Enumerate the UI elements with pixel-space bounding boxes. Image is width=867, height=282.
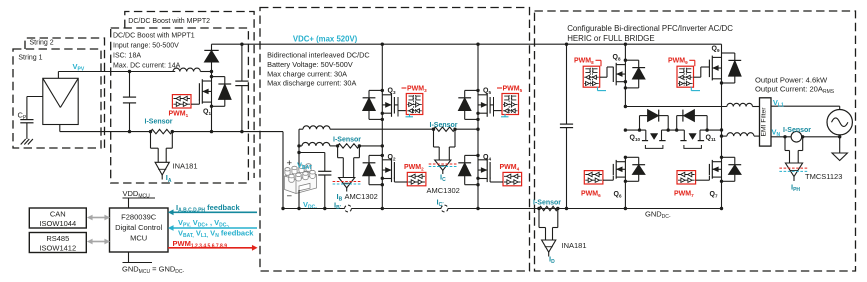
transistor Q4 xyxy=(477,129,479,155)
svg-text:PWM3: PWM3 xyxy=(407,85,427,93)
svg-text:I-Sensor: I-Sensor xyxy=(430,122,458,129)
svg-text:PWM2: PWM2 xyxy=(404,164,424,172)
output inductor L1 xyxy=(727,103,753,106)
output inductor N xyxy=(722,135,727,137)
svg-text:Digital Control: Digital Control xyxy=(115,223,162,232)
boost diode xyxy=(211,62,213,71)
battery + node wire xyxy=(298,129,300,170)
wire PV- to DC- xyxy=(282,132,284,209)
svg-text:−: − xyxy=(287,191,293,202)
transistor Q2 xyxy=(381,146,383,156)
svg-text:HERIC or FULL BRIDGE: HERIC or FULL BRIDGE xyxy=(567,34,654,43)
PFC/Inverter dashed box xyxy=(535,11,856,271)
gray arrows RS485-MCU xyxy=(92,241,106,243)
diode over Q11 xyxy=(676,116,678,131)
svg-text:EMI Filter: EMI Filter xyxy=(761,107,768,137)
svg-text:F280039C: F280039C xyxy=(121,213,157,222)
transistor Q7 xyxy=(711,160,713,179)
isolated amp AMC1302 (IC) xyxy=(433,129,435,147)
svg-text:Max charge current: 30A: Max charge current: 30A xyxy=(267,69,347,78)
transistor Q9 xyxy=(721,44,723,53)
op-amp INA181 (ID) xyxy=(538,209,540,228)
AC source xyxy=(827,110,852,135)
gate driver PWM4 xyxy=(503,172,522,185)
svg-text:PWM7: PWM7 xyxy=(674,191,694,199)
svg-text:I-Sensor: I-Sensor xyxy=(783,127,811,134)
svg-text:DC/DC Boost with MPPT2: DC/DC Boost with MPPT2 xyxy=(128,18,210,25)
svg-text:MCU: MCU xyxy=(130,234,147,243)
gate driver PWM3 xyxy=(394,104,398,106)
svg-text:ISOW1044: ISOW1044 xyxy=(39,219,76,228)
transistor Q5 xyxy=(477,44,479,90)
svg-text:VDC+ (max 520V): VDC+ (max 520V) xyxy=(293,35,358,44)
battery terminal block xyxy=(285,164,317,194)
svg-text:RS485: RS485 xyxy=(46,234,69,243)
DC- bottom rail xyxy=(283,208,722,210)
svg-text:CAN: CAN xyxy=(50,209,66,218)
HERIC output line (top) xyxy=(625,106,727,108)
svg-text:ISOW1412: ISOW1412 xyxy=(39,244,76,253)
String 1 dashed box xyxy=(13,49,101,148)
svg-text:PWM6: PWM6 xyxy=(581,191,601,199)
svg-text:GNDMCU = GNDDC-: GNDMCU = GNDDC- xyxy=(122,264,185,275)
EMI filter xyxy=(760,98,772,146)
svg-text:TMCS1123: TMCS1123 xyxy=(805,172,842,181)
svg-text:Max. DC current: 14A: Max. DC current: 14A xyxy=(113,62,181,69)
battery capacitor xyxy=(299,152,325,154)
svg-text:I-Sensor: I-Sensor xyxy=(533,199,561,206)
transistor Q8 xyxy=(624,44,626,60)
switch Q10 xyxy=(645,130,647,141)
svg-text:AMC1302: AMC1302 xyxy=(427,186,460,195)
svg-text:PWM5: PWM5 xyxy=(503,85,523,93)
node VPV / wire xyxy=(57,72,59,79)
DC/DC Boost with MPPT2 dashed box xyxy=(125,12,254,179)
svg-text:DC/DC Boost with MPPT1: DC/DC Boost with MPPT1 xyxy=(113,33,195,40)
CAN ISOW1044 box xyxy=(29,208,86,228)
transistor Q1 xyxy=(201,79,203,104)
svg-text:Battery Voltage: 50V-500V: Battery Voltage: 50V-500V xyxy=(267,60,353,69)
svg-text:Max discharge current: 30A: Max discharge current: 30A xyxy=(267,79,356,88)
gate driver PWM5 xyxy=(490,104,493,106)
phase line 1 (lower) xyxy=(299,145,302,147)
op-amp INA181 (IA) xyxy=(150,132,152,149)
ground (AC) xyxy=(839,137,841,153)
ground (CP) xyxy=(21,139,26,145)
svg-text:Configurable Bi-directional PF: Configurable Bi-directional PFC/Inverter… xyxy=(567,24,733,33)
gate driver PWM7 xyxy=(677,171,696,184)
switch Q11 xyxy=(683,130,685,141)
PV panel xyxy=(43,78,78,124)
HERIC lower line xyxy=(625,129,645,131)
svg-text:PWM8: PWM8 xyxy=(574,57,594,65)
I-Sensor shunt (boost) xyxy=(151,129,173,133)
wire PV bottom xyxy=(59,125,61,132)
gate driver PWM2 xyxy=(407,172,426,185)
RS485 ISOW1412 box xyxy=(29,233,86,253)
svg-text:I-Sensor: I-Sensor xyxy=(145,119,173,126)
DC link capacitor (boost) xyxy=(241,44,243,81)
svg-text:INA181: INA181 xyxy=(173,161,198,170)
VDD MCU lead xyxy=(128,198,130,208)
svg-text:PWM4: PWM4 xyxy=(500,164,520,172)
DC link capacitor (inverter) xyxy=(566,44,568,124)
svg-text:String 2: String 2 xyxy=(30,40,54,47)
feedback arrow IA..IPH xyxy=(172,211,258,213)
I-Sensor shunt (inverter DC-) xyxy=(539,206,558,210)
transistor Q3 xyxy=(381,44,383,90)
svg-text:PWM1: PWM1 xyxy=(169,111,189,119)
gate driver PWM1 xyxy=(172,95,191,108)
diode over Q10 xyxy=(639,116,641,131)
DC/DC Boost with MPPT1 dashed box xyxy=(111,28,249,183)
svg-text:I-Sensor: I-Sensor xyxy=(333,136,361,143)
VN wire + hall sensor xyxy=(771,136,791,138)
gate driver PWM9 xyxy=(677,66,694,87)
phase line 2 (top) xyxy=(299,128,303,130)
String 2 dashed box xyxy=(25,38,105,148)
I-Sensor shunt phase1 xyxy=(338,144,360,148)
transistor Q6 xyxy=(615,160,617,179)
VL1 wire xyxy=(771,105,840,107)
svg-text:String 1: String 1 xyxy=(18,54,42,61)
Bidirectional DC/DC dashed box xyxy=(260,8,530,272)
svg-text:Output Power: 4.6kW: Output Power: 4.6kW xyxy=(755,75,828,84)
svg-text:Bidirectional interleaved DC/D: Bidirectional interleaved DC/DC xyxy=(267,51,370,60)
svg-text:AMC1302: AMC1302 xyxy=(345,192,378,201)
input capacitor xyxy=(129,72,131,98)
svg-text:ISC: 18A: ISC: 18A xyxy=(113,53,141,60)
I-Sensor shunt phase2 xyxy=(434,127,456,131)
feedback arrow voltages xyxy=(172,227,258,229)
GND MCU lead xyxy=(128,252,130,263)
VDC+ rail xyxy=(212,43,722,45)
svg-text:+: + xyxy=(287,158,293,169)
capacitor CP xyxy=(27,96,43,98)
svg-text:Input range: 50-500V: Input range: 50-500V xyxy=(113,43,179,50)
gate driver PWM6 xyxy=(584,171,603,184)
gate driver PWM8 xyxy=(583,66,600,87)
svg-text:PWM9: PWM9 xyxy=(668,57,688,65)
svg-text:INA181: INA181 xyxy=(562,241,587,250)
PWM arrow xyxy=(168,247,254,249)
isolated amp TMCS1123 (IPH) xyxy=(784,137,786,151)
battery - wire xyxy=(298,190,300,209)
MCU F280039C box xyxy=(110,208,169,252)
gray arrows CAN-MCU xyxy=(92,217,106,219)
boost inductor xyxy=(173,68,200,71)
isolated amp AMC1302 (IB) xyxy=(337,146,339,158)
